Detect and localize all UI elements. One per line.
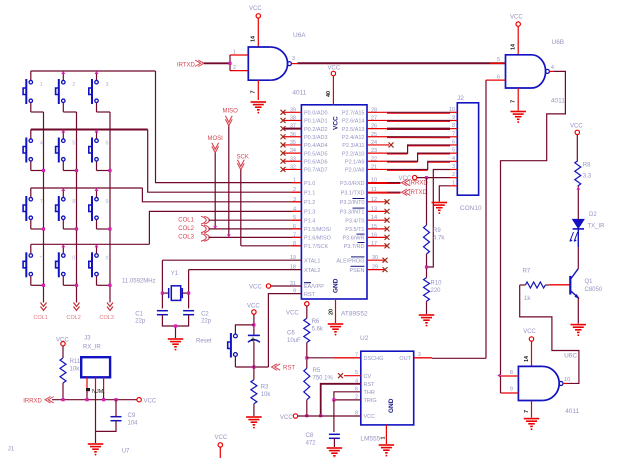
svg-text:14: 14 [524, 355, 530, 362]
svg-text:VCC: VCC [247, 304, 260, 310]
svg-text:P1.3: P1.3 [304, 210, 315, 216]
svg-text:U6C: U6C [564, 352, 577, 359]
svg-text:2: 2 [452, 172, 455, 178]
svg-text:RST: RST [364, 382, 376, 388]
svg-text:10k: 10k [261, 392, 272, 398]
svg-text:SCK: SCK [237, 154, 249, 160]
svg-text:16: 16 [371, 232, 377, 238]
svg-text:D2: D2 [589, 212, 597, 218]
svg-text:4: 4 [551, 65, 554, 71]
svg-text:IRRXD: IRRXD [23, 398, 42, 404]
svg-text:P0.3/AD3: P0.3/AD3 [304, 135, 328, 141]
svg-text:OUT: OUT [399, 356, 411, 362]
svg-text:P1.5/MOSI: P1.5/MOSI [304, 227, 331, 233]
svg-text:12: 12 [371, 197, 377, 203]
svg-text:R5: R5 [313, 368, 321, 374]
svg-text:R7: R7 [523, 269, 531, 275]
svg-text:P3.2/INT0: P3.2/INT0 [340, 200, 365, 206]
svg-text:GND: GND [333, 278, 340, 293]
svg-text:8: 8 [72, 199, 75, 205]
svg-text:P3.3/INT1: P3.3/INT1 [340, 210, 365, 216]
svg-text:1: 1 [233, 50, 236, 56]
svg-text:P3.4/T0: P3.4/T0 [345, 218, 364, 224]
svg-text:Reset: Reset [196, 339, 212, 345]
svg-text:COL1: COL1 [178, 218, 194, 224]
svg-text:P2.6/A14: P2.6/A14 [342, 119, 365, 125]
svg-text:7: 7 [251, 90, 257, 93]
svg-text:P0.1/AD1: P0.1/AD1 [304, 119, 328, 125]
svg-text:P2.7/A15: P2.7/A15 [342, 111, 365, 117]
svg-text:MOSI: MOSI [208, 136, 224, 142]
svg-text:P3.1/TXD: P3.1/TXD [341, 190, 365, 196]
svg-text:P0.4/AD4: P0.4/AD4 [304, 143, 328, 149]
svg-text:U2: U2 [360, 335, 369, 342]
svg-text:21: 21 [371, 164, 377, 170]
svg-text:5: 5 [293, 215, 296, 221]
svg-text:7: 7 [452, 131, 455, 137]
svg-text:1: 1 [293, 178, 296, 184]
svg-text:38: 38 [290, 115, 296, 121]
svg-text:8: 8 [452, 123, 455, 129]
svg-text:U6B: U6B [552, 39, 565, 46]
svg-text:14: 14 [511, 43, 517, 50]
svg-text:TX_IR: TX_IR [588, 223, 606, 229]
svg-text:P1.6/MISO: P1.6/MISO [304, 236, 332, 242]
svg-text:P1.2: P1.2 [304, 200, 315, 206]
svg-text:22p: 22p [135, 319, 146, 325]
svg-text:C8050: C8050 [585, 287, 603, 293]
svg-text:32: 32 [290, 164, 296, 170]
svg-text:VCC: VCC [286, 311, 299, 317]
svg-text:33: 33 [290, 156, 296, 162]
svg-text:COL2: COL2 [67, 315, 81, 321]
svg-text:U6A: U6A [293, 32, 306, 39]
svg-text:17: 17 [371, 241, 377, 247]
svg-text:J2: J2 [457, 95, 464, 102]
svg-text:VCC: VCC [399, 176, 412, 182]
svg-text:5.6k: 5.6k [312, 327, 324, 333]
svg-text:25: 25 [371, 132, 377, 138]
svg-text:XTAL1: XTAL1 [304, 258, 320, 264]
svg-text:6: 6 [452, 139, 455, 145]
svg-text:8: 8 [293, 241, 296, 247]
svg-text:P3.6/WR: P3.6/WR [342, 236, 364, 242]
svg-text:40: 40 [326, 91, 332, 97]
svg-text:20: 20 [329, 309, 335, 315]
svg-text:VCC: VCC [333, 116, 340, 130]
svg-text:CV: CV [364, 374, 372, 380]
svg-text:XTAL2: XTAL2 [304, 268, 320, 274]
svg-text:R6: R6 [312, 319, 320, 325]
svg-text:5: 5 [497, 57, 500, 63]
svg-text:3: 3 [292, 56, 295, 62]
svg-text:VCC: VCC [523, 329, 536, 335]
svg-text:3.3: 3.3 [583, 174, 592, 180]
svg-text:C6: C6 [287, 331, 295, 337]
svg-text:9: 9 [510, 387, 513, 393]
svg-text:COL3: COL3 [100, 315, 114, 321]
svg-text:J1: J1 [8, 447, 15, 453]
svg-text:24: 24 [371, 140, 377, 146]
svg-text:10: 10 [564, 377, 570, 383]
svg-text:14: 14 [371, 215, 377, 221]
svg-text:P2.3/A11: P2.3/A11 [342, 143, 364, 149]
svg-text:4011: 4011 [551, 98, 565, 105]
svg-text:ALE/PROG: ALE/PROG [336, 258, 364, 264]
svg-text:COL3: COL3 [178, 235, 194, 241]
svg-text:VCC: VCC [570, 124, 583, 130]
svg-text:10k: 10k [70, 367, 81, 373]
svg-text:P2.2/A10: P2.2/A10 [342, 151, 365, 157]
svg-text:P3.5/T1: P3.5/T1 [345, 227, 364, 233]
svg-text:IRRXD: IRRXD [409, 181, 428, 187]
svg-text:VCC: VCC [249, 284, 262, 290]
svg-text:7: 7 [293, 232, 296, 238]
svg-text:P1.0: P1.0 [304, 181, 315, 187]
svg-text:C2: C2 [201, 312, 209, 318]
svg-text:NJM: NJM [92, 389, 104, 395]
svg-text:4: 4 [40, 141, 43, 147]
svg-text:7: 7 [355, 352, 358, 358]
svg-text:7: 7 [40, 199, 43, 205]
svg-text:P0.0/AD0: P0.0/AD0 [304, 111, 328, 117]
svg-text:VCC: VCC [144, 398, 157, 404]
svg-text:39: 39 [290, 107, 296, 113]
svg-text:R8: R8 [583, 163, 591, 169]
svg-text:37: 37 [290, 124, 296, 130]
svg-text:RST: RST [304, 292, 316, 298]
svg-text:J3: J3 [84, 336, 91, 342]
svg-text:19: 19 [290, 255, 296, 261]
svg-text:COL2: COL2 [178, 226, 194, 232]
svg-text:VCC: VCC [215, 435, 228, 441]
svg-text:4: 4 [452, 156, 455, 162]
svg-text:22p: 22p [201, 319, 212, 325]
svg-text:7: 7 [511, 100, 517, 103]
svg-text:AT89S52: AT89S52 [341, 311, 368, 318]
svg-text:P3.0/RXD: P3.0/RXD [340, 181, 364, 187]
svg-text:DSCHG: DSCHG [364, 356, 384, 362]
svg-text:MISO: MISO [223, 109, 239, 115]
svg-text:P1.1: P1.1 [304, 190, 315, 196]
svg-text:VCC: VCC [249, 6, 262, 12]
svg-text:4011: 4011 [565, 408, 579, 415]
svg-text:14: 14 [251, 35, 257, 42]
svg-text:VCC: VCC [56, 337, 69, 343]
svg-text:P2.1/A9: P2.1/A9 [345, 159, 365, 165]
svg-text:15: 15 [371, 224, 377, 230]
svg-text:5: 5 [452, 148, 455, 154]
svg-text:1: 1 [40, 82, 43, 88]
svg-text:2: 2 [293, 187, 296, 193]
svg-text:VCC: VCC [280, 415, 293, 421]
svg-text:P3.7/RD: P3.7/RD [344, 244, 365, 250]
svg-text:P0.2/AD2: P0.2/AD2 [304, 127, 328, 133]
svg-text:30: 30 [372, 255, 378, 261]
svg-text:28: 28 [371, 107, 377, 113]
svg-text:LM555: LM555 [360, 436, 380, 443]
svg-text:Q1: Q1 [585, 279, 594, 285]
svg-text:5: 5 [72, 141, 75, 147]
svg-text:22: 22 [371, 156, 377, 162]
svg-text:1: 1 [452, 180, 455, 186]
svg-text:VCC: VCC [510, 15, 523, 21]
svg-text:GND: GND [388, 398, 395, 413]
svg-text:3: 3 [293, 197, 296, 203]
svg-text:29: 29 [372, 265, 378, 271]
svg-text:1: 1 [381, 436, 387, 439]
svg-text:P2.4/A12: P2.4/A12 [342, 135, 365, 141]
svg-text:4.7k: 4.7k [433, 236, 445, 242]
svg-text:TRIG: TRIG [364, 398, 377, 404]
svg-text:P1.4: P1.4 [304, 218, 315, 224]
svg-text:0: 0 [72, 255, 75, 261]
svg-text:P0.6/AD6: P0.6/AD6 [304, 159, 328, 165]
svg-text:COL1: COL1 [34, 315, 48, 321]
svg-text:9: 9 [452, 115, 455, 121]
svg-text:EA/VPP: EA/VPP [304, 284, 324, 290]
svg-text:VCC: VCC [364, 414, 376, 420]
svg-text:2: 2 [72, 82, 75, 88]
svg-text:P0.5/AD5: P0.5/AD5 [304, 151, 328, 157]
svg-text:P2.5/A13: P2.5/A13 [342, 127, 365, 133]
svg-text:472: 472 [306, 441, 317, 447]
svg-text:RX_IR: RX_IR [83, 345, 101, 351]
svg-text:C9: C9 [128, 413, 136, 419]
svg-text:VCC: VCC [328, 65, 341, 71]
svg-text:P0.7/AD7: P0.7/AD7 [304, 168, 328, 174]
svg-text:3: 3 [452, 164, 455, 170]
svg-text:104: 104 [128, 421, 139, 427]
svg-text:P2.0/A8: P2.0/A8 [345, 168, 365, 174]
svg-text:13: 13 [371, 206, 377, 212]
svg-text:36: 36 [290, 132, 296, 138]
svg-text:Y1: Y1 [171, 271, 179, 277]
svg-text:U7: U7 [122, 449, 130, 455]
svg-text:26: 26 [371, 124, 377, 130]
svg-text:6: 6 [106, 141, 109, 147]
svg-text:11.0592MHz: 11.0592MHz [122, 279, 156, 285]
svg-text:4011: 4011 [292, 90, 306, 97]
svg-text:R10: R10 [431, 281, 443, 287]
svg-text:PSEN: PSEN [350, 268, 365, 274]
svg-text:R3: R3 [261, 385, 269, 391]
svg-text:P1.7/SCK: P1.7/SCK [304, 244, 328, 250]
svg-text:8: 8 [510, 370, 513, 376]
svg-text:2: 2 [233, 65, 236, 71]
svg-text:23: 23 [371, 148, 377, 154]
svg-text:RST: RST [283, 366, 295, 372]
svg-text:10: 10 [371, 178, 377, 184]
svg-text:35: 35 [290, 140, 296, 146]
svg-text:R9: R9 [433, 228, 441, 234]
svg-text:C1: C1 [135, 312, 143, 318]
svg-text:IRTXD: IRTXD [177, 63, 196, 69]
svg-text:18: 18 [290, 265, 296, 271]
svg-text:27: 27 [371, 115, 377, 121]
svg-text:4: 4 [293, 206, 296, 212]
svg-text:750 1%: 750 1% [313, 376, 334, 382]
svg-text:CON10: CON10 [460, 205, 482, 212]
svg-text:11: 11 [371, 187, 377, 193]
svg-text:10uF: 10uF [287, 338, 301, 344]
svg-text:1k: 1k [524, 296, 531, 302]
svg-text:220: 220 [431, 288, 442, 294]
svg-text:9: 9 [106, 199, 109, 205]
svg-text:R11: R11 [70, 359, 81, 365]
svg-text:IRTXD: IRTXD [409, 190, 428, 196]
svg-text:C8: C8 [306, 433, 314, 439]
svg-text:THR: THR [364, 390, 375, 396]
svg-text:7: 7 [524, 410, 530, 413]
svg-text:6: 6 [293, 224, 296, 230]
svg-text:34: 34 [290, 148, 296, 154]
svg-text:3: 3 [106, 82, 109, 88]
